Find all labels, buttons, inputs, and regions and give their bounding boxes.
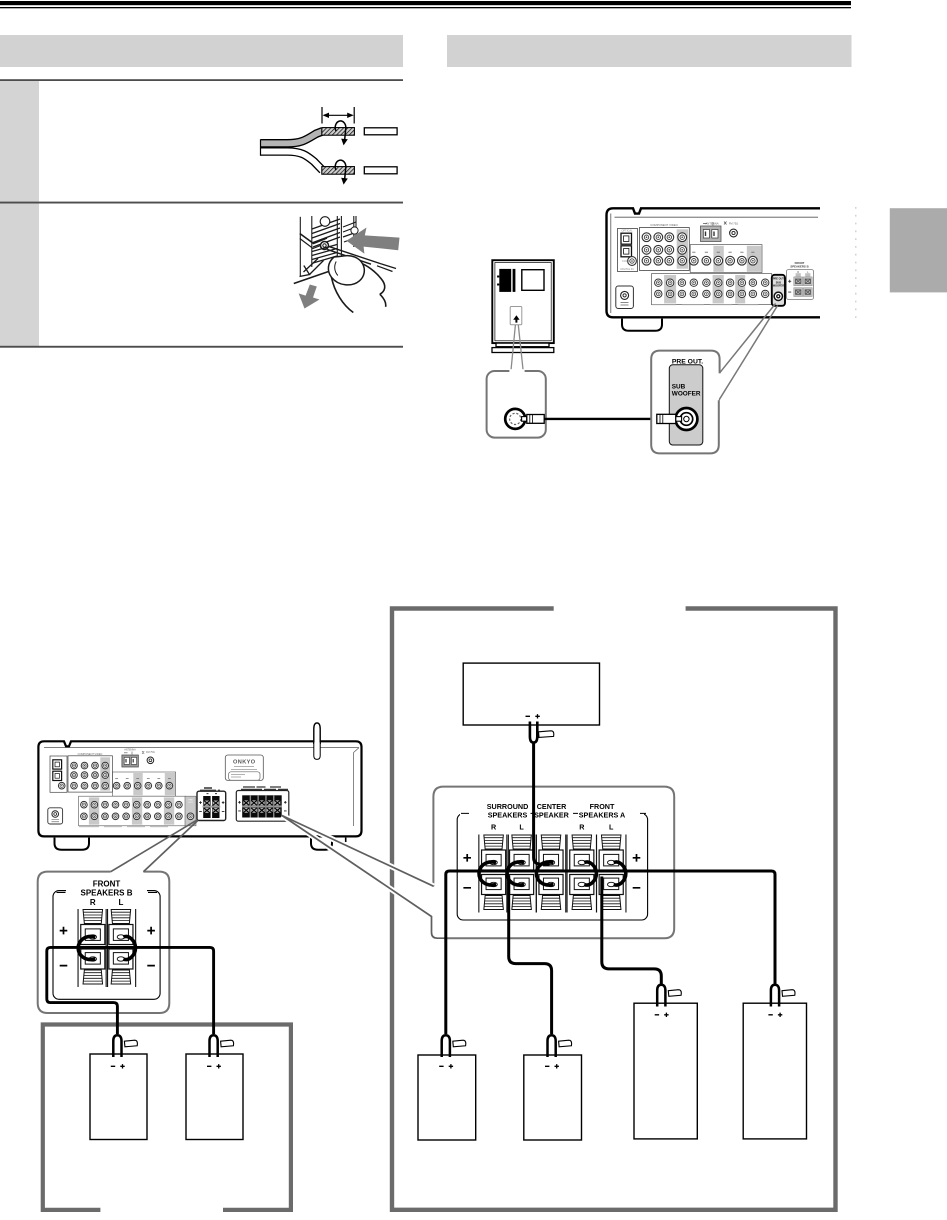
svg-text:SPEAKERS B: SPEAKERS B — [80, 888, 132, 897]
svg-text:FM 75Ω: FM 75Ω — [146, 751, 155, 754]
svg-text:FRONT: FRONT — [93, 880, 121, 889]
twisted result rods — [364, 128, 397, 135]
video jack row — [690, 245, 762, 273]
svg-text:R: R — [90, 898, 96, 907]
terminal hook wires R — [78, 936, 95, 959]
svg-text:ONKYO: ONKYO — [233, 759, 256, 765]
figure: stripping speaker cable — [261, 107, 398, 185]
left speakers-B group gray frame — [43, 1025, 291, 1210]
gray release arrow — [299, 285, 320, 309]
svg-text:FM 75Ω: FM 75Ω — [729, 222, 738, 226]
svg-text:R: R — [491, 823, 497, 832]
inserted wire — [327, 246, 380, 264]
main speaker cable run A — [446, 871, 775, 1034]
front speakers B terminal block (receiver) — [197, 788, 226, 821]
pre out subwoofer column — [185, 796, 196, 826]
svg-text:ANTENNA: ANTENNA — [705, 222, 718, 226]
subwoofer input slot — [510, 307, 522, 325]
inner terminal panel — [53, 891, 160, 1000]
front R cable — [602, 877, 662, 986]
center speaker — [463, 663, 599, 725]
svg-text:WOOFER: WOOFER — [773, 284, 784, 287]
audio jack rows — [652, 274, 772, 305]
subwoofer input zoom box — [487, 371, 546, 438]
right section header bar — [447, 35, 852, 67]
svg-text:L: L — [118, 898, 123, 907]
polarity marks — [463, 854, 640, 888]
svg-text:COAX: COAX — [622, 259, 630, 263]
surround right speaker — [418, 1055, 476, 1140]
svg-text:L: L — [519, 823, 524, 832]
polarity marks on speakers — [439, 1064, 453, 1068]
chassis foot — [622, 319, 662, 331]
figure: pushing wire into speaker terminal — [294, 216, 396, 313]
instruction table left shaded column — [0, 81, 39, 203]
svg-text:SPEAKER: SPEAKER — [534, 810, 570, 819]
front right speaker A — [634, 1003, 697, 1139]
powered subwoofer — [492, 260, 554, 352]
component video jacks — [640, 228, 690, 271]
forks into A speakers — [442, 1035, 466, 1057]
bottom receiver rear panel — [38, 723, 361, 837]
surround L cable — [509, 877, 552, 1035]
svg-text:PRE OUT: PRE OUT — [773, 277, 785, 280]
inner terminal panel — [457, 814, 647, 920]
svg-text:SPEAKERS A: SPEAKERS A — [579, 810, 625, 819]
subwoofer pre out jack — [675, 408, 697, 430]
forks into B speakers — [113, 1035, 137, 1057]
surround/center/front terminal zoom box — [433, 787, 674, 939]
twist arrow top — [335, 121, 346, 140]
bare twisted wire ends (hatched) — [322, 128, 355, 136]
digital input section — [618, 229, 638, 272]
PRE OUT SUBWOOFER jack (highlighted) — [772, 275, 785, 306]
svg-text:OPTICAL: OPTICAL — [621, 229, 633, 233]
FM antenna wire hook — [314, 723, 320, 744]
svg-text:WOOFER: WOOFER — [672, 391, 701, 398]
callout lines from PRE OUT jack to zoom box — [719, 304, 775, 374]
terminal hook wires (right zoom box) — [479, 862, 496, 885]
line input jack — [505, 409, 525, 429]
speakers A terminal block (receiver) — [236, 787, 288, 821]
ONKYO label plate — [225, 755, 263, 780]
speaker cable run B — [47, 947, 214, 1034]
PRE OUT zoom box — [651, 351, 719, 454]
right speakers-A group gray frame — [392, 609, 836, 1210]
callout lines from receiver speakers A — [282, 816, 434, 887]
callout lines from receiver speakers B — [111, 820, 198, 872]
cable lead-in conductors — [261, 131, 323, 143]
front left speaker A — [743, 1003, 806, 1139]
page fold dashed mark — [855, 207, 857, 320]
surround left speaker — [524, 1055, 582, 1140]
terminal hook wires L — [123, 936, 135, 959]
page edge gray tab — [890, 208, 947, 292]
polarity marks — [60, 927, 155, 966]
antenna terminals — [122, 755, 138, 767]
audio jack rows — [79, 796, 186, 826]
center speaker fork (points up) — [530, 722, 537, 743]
digital input section — [50, 756, 67, 792]
strip length dimension — [321, 107, 323, 124]
front speakers B zoom box — [38, 872, 170, 1013]
front right speaker B — [90, 1054, 147, 1140]
audio cable — [544, 418, 658, 420]
left section header bar — [0, 35, 403, 67]
page top double rule — [0, 1, 851, 5]
svg-text:COMPONENT VIDEO: COMPONENT VIDEO — [650, 223, 678, 227]
svg-text:SPEAKERS B: SPEAKERS B — [790, 265, 808, 269]
speaker terminals R / L — [78, 909, 108, 987]
AC inlet — [616, 286, 634, 309]
svg-text:SUB: SUB — [672, 384, 686, 391]
svg-text:R: R — [579, 823, 585, 832]
chassis feet — [55, 838, 90, 850]
component video jacks — [68, 756, 112, 792]
AC inlet — [48, 808, 63, 824]
instruction table rules — [0, 79, 403, 81]
RCA plug left — [522, 417, 527, 422]
svg-text:ANTENNA: ANTENNA — [124, 748, 136, 751]
RCA plug right — [657, 414, 676, 423]
top-right receiver rear panel — [607, 208, 821, 330]
center speaker cable — [534, 744, 550, 865]
svg-text:COMPONENT VIDEO: COMPONENT VIDEO — [78, 753, 103, 756]
subwoofer base — [496, 343, 549, 347]
front left speaker B — [186, 1054, 243, 1140]
svg-text:SPEAKERS: SPEAKERS — [488, 810, 528, 819]
svg-text:OUT: OUT — [188, 802, 193, 804]
svg-text:DIGITAL IN: DIGITAL IN — [620, 267, 633, 271]
svg-text:L: L — [609, 823, 614, 832]
finger — [328, 256, 364, 285]
callout V lines from subwoofer input — [511, 325, 516, 371]
video jack row — [112, 772, 175, 796]
gray push arrow — [347, 228, 400, 254]
twist arrow bottom — [335, 160, 346, 179]
